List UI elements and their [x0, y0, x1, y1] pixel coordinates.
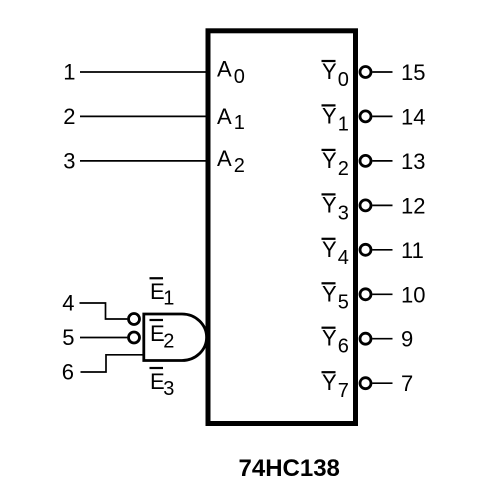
E3 overbar: [150, 367, 164, 369]
output bubble Y6: [360, 333, 371, 344]
Y3 overbar: [322, 193, 336, 195]
svg-text:4: 4: [62, 291, 74, 316]
Y2 overbar: [322, 149, 336, 151]
svg-text:15: 15: [401, 60, 425, 85]
E1 overbar: [150, 277, 164, 279]
pin 3 wire: [80, 160, 206, 162]
gate input bubble E2: [129, 332, 140, 343]
svg-text:12: 12: [401, 193, 425, 218]
pin 7 wire: [372, 382, 392, 384]
Y5 overbar: [322, 282, 336, 284]
svg-text:9: 9: [401, 327, 413, 352]
svg-text:7: 7: [401, 371, 413, 396]
pin 9 wire: [372, 338, 392, 340]
output bubble Y4: [360, 244, 371, 255]
output bubble Y2: [360, 155, 371, 166]
gate input bubble E1: [129, 314, 140, 325]
pin 6 wire: [81, 355, 143, 372]
Y1 overbar: [322, 104, 336, 106]
output bubble Y3: [360, 200, 371, 211]
enable AND gate: [144, 314, 207, 361]
output bubble Y0: [360, 67, 371, 78]
svg-text:14: 14: [401, 104, 425, 129]
IC body U1 74HC138: [208, 31, 356, 424]
Y6 overbar: [322, 327, 336, 329]
Y4 overbar: [322, 238, 336, 240]
Y7 overbar: [322, 371, 336, 373]
E2 overbar: [150, 319, 164, 321]
svg-text:3: 3: [63, 149, 75, 174]
pin 2 wire: [80, 115, 206, 117]
output bubble Y5: [360, 289, 371, 300]
svg-text:11: 11: [401, 238, 424, 263]
svg-text:6: 6: [62, 360, 74, 385]
svg-text:E1: E1: [150, 279, 174, 310]
svg-text:13: 13: [401, 149, 425, 174]
svg-text:2: 2: [63, 104, 75, 129]
pin 4 wire: [80, 303, 128, 319]
output bubble Y1: [360, 111, 371, 122]
pin 12 wire: [372, 204, 392, 206]
svg-text:74HC138: 74HC138: [239, 455, 340, 482]
pin 11 wire: [372, 249, 392, 251]
svg-text:5: 5: [62, 325, 74, 350]
output bubble Y7: [360, 378, 371, 389]
Y0 overbar: [322, 60, 336, 62]
pin 1 wire: [80, 71, 206, 73]
svg-text:1: 1: [63, 60, 75, 85]
pin 13 wire: [372, 160, 392, 162]
svg-text:10: 10: [401, 282, 425, 307]
pin 10 wire: [372, 293, 392, 295]
svg-text:E3: E3: [150, 369, 174, 400]
pin 15 wire: [372, 71, 392, 73]
pin 5 wire: [80, 337, 127, 339]
pin 14 wire: [372, 115, 392, 117]
